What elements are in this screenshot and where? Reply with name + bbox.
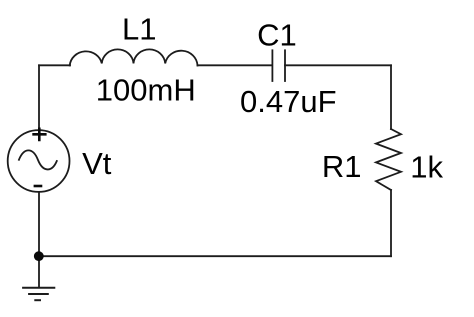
svg-text:C1: C1 [257,18,297,53]
capacitor C1 right plate [284,50,286,81]
ground bar 3 [34,299,41,301]
wire left vertical (top corner to source +) [38,65,40,130]
wire source bottom to junction [38,192,40,256]
svg-text:Vt: Vt [82,146,112,181]
svg-text:0.47uF: 0.47uF [240,84,337,119]
svg-text:1k: 1k [410,150,443,185]
svg-text:L1: L1 [122,12,156,47]
plus sign of source [34,129,46,140]
wire right vertical upper (corner to R1) [390,65,392,129]
voltage source Vt circle [8,130,70,192]
inductor L1 [70,49,198,65]
minus sign of source [35,185,41,188]
wire top-left horizontal (corner to L1) [39,64,70,66]
wire C1 to top-right corner [285,64,391,66]
junction node dot [34,251,44,261]
svg-text:R1: R1 [322,149,362,184]
wire bottom horizontal [39,255,391,257]
capacitor C1 left plate [271,50,273,81]
wire right vertical lower (R1 to bottom corner) [390,190,392,256]
ground bar 1 [22,287,55,289]
sine wave inside source [19,150,57,169]
svg-text:100mH: 100mH [96,73,196,108]
wire junction to ground [38,256,40,287]
wire L1 to C1 [198,64,273,66]
resistor R1 zigzag [376,129,401,190]
ground bar 2 [28,293,49,295]
